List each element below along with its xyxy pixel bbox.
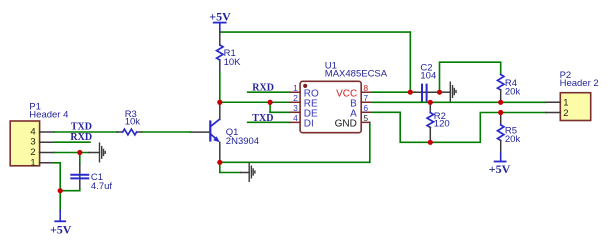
node RE/DE junction: [268, 100, 273, 105]
svg-text:10K: 10K: [224, 57, 242, 68]
svg-text:+5V: +5V: [209, 10, 231, 24]
wire P1 pin2 to ground: [54, 152, 88, 154]
node R2 bottom junction on A: [428, 140, 433, 145]
capacitor C1: [79, 153, 81, 165]
svg-text:120: 120: [434, 118, 450, 129]
wire pin5 riser: [369, 122, 371, 162]
node C1 bottom +5V junction: [58, 188, 63, 193]
P1 pin stubs: [40, 132, 55, 163]
node C1 top junction: [77, 150, 82, 155]
wire +5V rail top: [220, 31, 410, 33]
wire B row to P2 pin1: [372, 101, 546, 103]
svg-text:Header 2: Header 2: [560, 78, 599, 89]
wire emitter ground branch: [220, 162, 241, 172]
wire RE stub: [270, 101, 290, 103]
wire C2 junction to R4: [440, 62, 501, 92]
wire pin8 VCC row: [372, 91, 415, 93]
power +5V bottom right: [500, 153, 502, 162]
svg-text:104: 104: [420, 71, 436, 82]
wire RE-DE link: [269, 102, 271, 112]
resistor R5: [500, 113, 502, 125]
wire DE stub: [270, 111, 290, 113]
node R2 top junction on B: [428, 100, 433, 105]
svg-text:TXD: TXD: [71, 122, 92, 133]
wire VCC drop: [409, 32, 411, 92]
U1 left pin stubs: [290, 92, 300, 122]
svg-text:4.7uf: 4.7uf: [91, 181, 112, 192]
wire C1 bottom link: [60, 189, 80, 191]
svg-text:1: 1: [293, 83, 298, 93]
power +5V bottom left: [59, 210, 61, 221]
svg-text:2: 2: [563, 108, 568, 119]
wire R1 to collector: [219, 72, 221, 102]
capacitor C2: [415, 91, 439, 93]
svg-text:DI: DI: [304, 119, 314, 130]
header P1: [10, 121, 39, 166]
svg-text:20k: 20k: [505, 134, 521, 145]
resistor R4: [498, 75, 504, 91]
IC U1 MAX485ECSA: [300, 81, 361, 132]
svg-text:6: 6: [363, 103, 368, 113]
ground P1 pin2: [100, 143, 106, 162]
node Q1 collector junction: [217, 100, 222, 105]
node R4 bottom junction on B: [498, 100, 503, 105]
wire TXD stub U1: [248, 121, 290, 123]
wire collector row: [220, 101, 270, 103]
resistor R3: [117, 131, 142, 133]
svg-text:+5V: +5V: [50, 222, 72, 236]
svg-text:10k: 10k: [125, 116, 141, 127]
P2 pin stubs: [546, 102, 561, 112]
ground C2: [450, 82, 456, 101]
wire RXD stub U1: [248, 91, 290, 93]
svg-text:8: 8: [363, 83, 368, 93]
wire P1 pin4 to R3: [54, 131, 117, 133]
wire emitter to pin5 riser: [220, 161, 370, 163]
header P2: [560, 93, 590, 121]
svg-text:2: 2: [293, 93, 298, 103]
wire pin5 stub: [361, 121, 370, 123]
U1 right pin stubs: [361, 92, 372, 112]
svg-text:+5V: +5V: [489, 162, 511, 176]
node C2 ground junction: [437, 90, 442, 95]
svg-text:1: 1: [30, 157, 35, 168]
node Q1 emitter junction: [217, 160, 222, 165]
node VCC junction: [408, 90, 413, 95]
node R5 top junction on A: [498, 110, 503, 115]
ground Q1 emitter: [249, 163, 255, 182]
wire A net route: [372, 112, 546, 142]
wire R3 to base: [142, 131, 190, 133]
svg-text:7: 7: [363, 93, 368, 103]
resistor R2: [429, 102, 431, 112]
wire P1 pin1 to +5V: [54, 163, 60, 211]
transistor Q1: [190, 131, 209, 133]
svg-text:4: 4: [293, 113, 298, 123]
svg-text:3: 3: [293, 103, 298, 113]
svg-text:Header 4: Header 4: [29, 110, 68, 121]
svg-text:2N3904: 2N3904: [226, 136, 259, 147]
resistor R1: [219, 32, 221, 72]
wire P1 pin3 RXD: [54, 141, 90, 143]
svg-text:20k: 20k: [505, 87, 521, 98]
svg-text:MAX485ECSA: MAX485ECSA: [325, 69, 388, 80]
svg-text:5: 5: [363, 113, 368, 123]
svg-text:GND: GND: [335, 118, 357, 129]
